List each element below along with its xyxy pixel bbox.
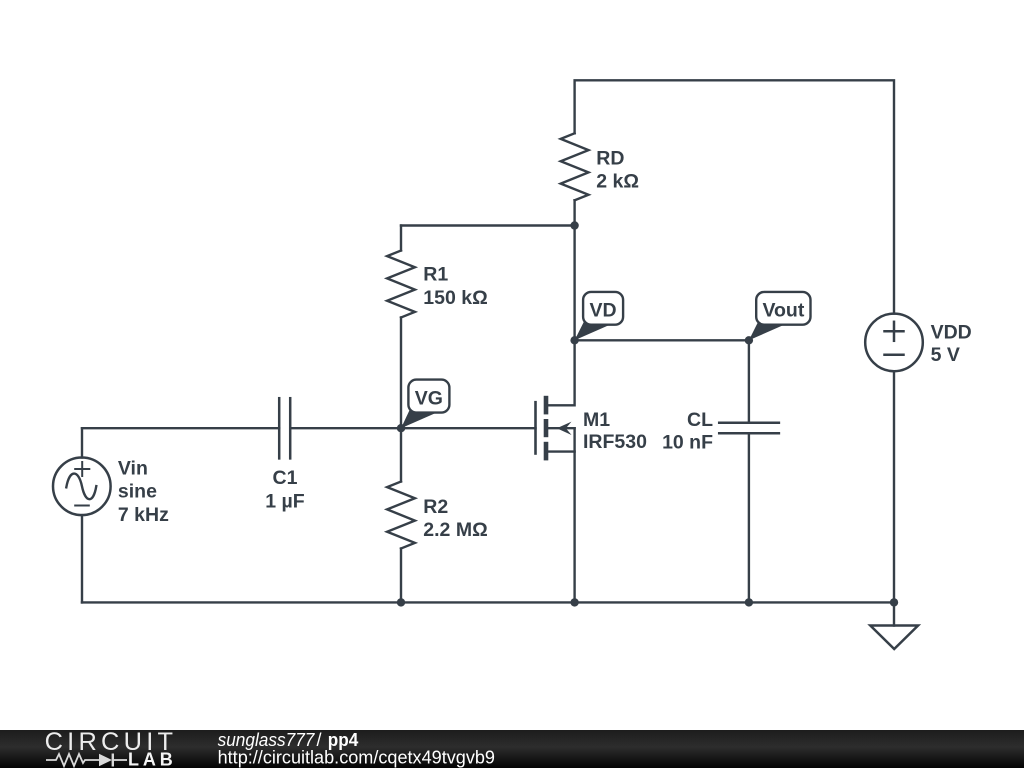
svg-text:7 kHz: 7 kHz bbox=[118, 504, 169, 526]
wire Vin bottom bbox=[81, 515, 83, 602]
resistor R2 bbox=[387, 428, 415, 602]
label C1 value bbox=[265, 467, 304, 512]
source VDD bbox=[865, 314, 923, 372]
svg-text:CL: CL bbox=[687, 409, 713, 431]
label R1 value bbox=[423, 264, 487, 309]
wire gate row left of C1 bbox=[82, 427, 279, 429]
wire bottom rail bbox=[82, 601, 894, 603]
wire gate row right of C1 bbox=[290, 427, 535, 429]
transistor M1 bbox=[536, 340, 575, 602]
svg-text:2.2 MΩ: 2.2 MΩ bbox=[423, 519, 487, 541]
resistor R1 bbox=[387, 226, 415, 429]
svg-text:http://circuitlab.com/cqetx49t: http://circuitlab.com/cqetx49tvgvb9 bbox=[218, 747, 495, 767]
wire Vout down to CL bbox=[748, 340, 750, 423]
channel segments bbox=[544, 396, 549, 461]
node dots bbox=[397, 221, 898, 606]
svg-text:2 kΩ: 2 kΩ bbox=[596, 171, 639, 193]
drain tap bbox=[548, 340, 574, 405]
label M1 value bbox=[583, 409, 647, 453]
node VD bbox=[570, 336, 578, 344]
svg-text:150 kΩ: 150 kΩ bbox=[423, 287, 487, 309]
wire source down bbox=[573, 428, 575, 602]
capacitor C1 bbox=[279, 398, 290, 458]
label Vin value bbox=[118, 457, 169, 526]
svg-text:C1: C1 bbox=[273, 467, 298, 489]
wire top rail bbox=[575, 80, 894, 313]
svg-text:R1: R1 bbox=[423, 264, 448, 286]
svg-text:1 µF: 1 µF bbox=[265, 491, 304, 513]
wire CL bottom bbox=[748, 433, 750, 602]
resistor RD bbox=[561, 133, 589, 200]
ground bbox=[870, 626, 918, 650]
body tap with arrow bbox=[548, 427, 574, 429]
svg-text:LAB: LAB bbox=[128, 750, 173, 768]
label CL value bbox=[662, 409, 713, 454]
footer bar bbox=[0, 730, 1024, 768]
wire VDD bottom bbox=[893, 371, 895, 625]
wire RD bottom to VD node bbox=[573, 200, 575, 340]
label VDD value bbox=[931, 321, 972, 366]
svg-text:VDD: VDD bbox=[931, 321, 972, 343]
node flag VD bbox=[575, 292, 624, 340]
node VG bbox=[397, 424, 405, 432]
svg-text:M1: M1 bbox=[583, 409, 610, 431]
svg-text:IRF530: IRF530 bbox=[583, 431, 647, 453]
svg-text:VG: VG bbox=[415, 388, 443, 410]
svg-text:R2: R2 bbox=[423, 496, 448, 518]
label RD value bbox=[596, 147, 639, 192]
node VDD bottom bbox=[890, 598, 898, 606]
node R2 bottom bbox=[397, 598, 405, 606]
wire junction to R1 top bbox=[401, 224, 575, 226]
svg-text:RD: RD bbox=[596, 147, 624, 169]
gate bar bbox=[534, 402, 537, 453]
logo resistor-diode glyph bbox=[46, 754, 127, 767]
capacitor CL bbox=[719, 423, 779, 434]
node source bottom bbox=[570, 598, 578, 606]
node flag Vout bbox=[749, 292, 811, 340]
svg-text:sine: sine bbox=[118, 481, 157, 503]
label R2 value bbox=[423, 496, 487, 541]
svg-text:Vin: Vin bbox=[118, 457, 148, 479]
wire Vin top bbox=[81, 428, 83, 457]
node RD/R1 junction bbox=[570, 221, 578, 229]
node Vout bbox=[745, 336, 753, 344]
svg-text:Vout: Vout bbox=[762, 300, 804, 322]
source tap bbox=[548, 450, 574, 452]
source Vin bbox=[53, 458, 111, 516]
svg-text:5 V: 5 V bbox=[931, 344, 960, 366]
node CL bottom bbox=[745, 598, 753, 606]
svg-text:10 nF: 10 nF bbox=[662, 432, 713, 454]
node flag VG bbox=[401, 380, 449, 429]
wire VD to Vout bbox=[575, 339, 749, 341]
svg-text:VD: VD bbox=[590, 300, 617, 322]
